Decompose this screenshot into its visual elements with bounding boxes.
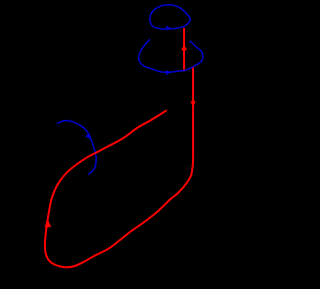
field line B1 (small top loop) [150,5,190,29]
wire: big circuit loop (current path) [45,67,193,267]
current arrow up (vertical segment) [181,44,187,50]
field line B3 (middle arc around slanted wire) [57,121,96,175]
arrowhead on field line B1 [166,26,172,31]
arrowhead on field line B2 [166,70,172,75]
arrowhead on field line B3 [85,133,92,140]
current arrow down (right vertical of loop) [190,101,195,107]
current arrow up (left branch of loop) [45,218,52,227]
wire: vertical segment through field loops [183,28,185,71]
field line B2 (large open loop) [139,39,203,72]
